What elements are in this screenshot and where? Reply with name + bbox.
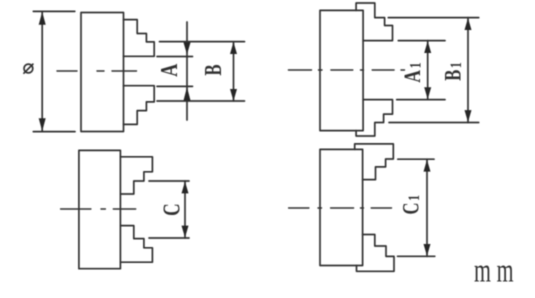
extension line bottom of A/B [157, 100, 245, 102]
arrowhead C1 top [424, 160, 431, 172]
arrowhead C top [182, 181, 189, 193]
dimension line B [233, 42, 235, 101]
dimension line C1 [426, 159, 428, 256]
extension line top of C1 [398, 158, 434, 160]
centerline of chuck 1 [57, 70, 137, 72]
svg-text:A: A [156, 63, 183, 77]
extension line bottom of C [149, 237, 189, 239]
centerline of chuck 4 [289, 207, 392, 209]
dimension line A [186, 22, 188, 120]
svg-text:C1: C1 [399, 195, 424, 215]
extension line bottom of A1 [397, 99, 445, 101]
arrowhead B1 bottom [465, 110, 472, 122]
diameter extension line bottom [33, 131, 75, 133]
chuck body 2 (top-right figure) [320, 10, 363, 130]
dimension line C [184, 181, 186, 238]
arrowhead A top (outside, pointing down) [184, 43, 191, 55]
top jaw of chuck 2 [356, 3, 392, 41]
svg-text:B1: B1 [441, 62, 466, 81]
diameter extension line top [33, 10, 75, 12]
chuck body 1 (top-left figure) [81, 13, 124, 132]
bottom jaw of chuck 3 [120, 226, 152, 263]
svg-text:A1: A1 [401, 62, 426, 82]
chuck body 4 (bottom-right figure) [320, 149, 363, 265]
arrowhead diameter top [39, 12, 46, 25]
centerline of chuck 2 [288, 69, 404, 71]
chuck body 3 (bottom-left figure) [79, 150, 121, 268]
extension line top of A1 [398, 40, 445, 42]
bottom jaw of chuck 1 [124, 86, 155, 125]
extension line bottom of B1 [389, 122, 479, 124]
arrowhead C1 bottom [424, 244, 431, 256]
bottom jaw of chuck 2 [356, 100, 392, 136]
arrowhead A1 bottom [424, 87, 431, 99]
diameter symbol slash [24, 64, 33, 73]
dimension line A1 [427, 41, 429, 100]
arrowhead B1 top [465, 18, 472, 30]
top jaw of chuck 3 [120, 157, 152, 194]
extension line top of C [149, 180, 189, 182]
arrowhead A1 top [424, 41, 431, 53]
arrowhead diameter bottom [39, 118, 46, 131]
top jaw of chuck 1 [124, 20, 155, 57]
arrowhead C bottom [182, 226, 189, 238]
svg-text:B: B [201, 64, 226, 75]
arrowhead B top [230, 42, 237, 54]
dimension line B1 [467, 18, 469, 123]
extension line jaw face upper [157, 56, 193, 58]
bottom jaw of chuck 4 [357, 235, 395, 272]
extension line bottom of C1 [398, 255, 435, 257]
extension line top of A/B [160, 41, 245, 43]
centerline of chuck 3 [61, 208, 136, 210]
svg-text:mm: mm [474, 253, 519, 290]
extension line top of B1 [388, 17, 478, 19]
extension line jaw face lower [157, 85, 193, 87]
arrowhead B bottom [230, 89, 237, 101]
diameter symbol circle [24, 64, 33, 73]
arrowhead A bottom (outside, pointing up) [184, 87, 191, 101]
svg-text:C: C [158, 203, 186, 215]
diameter dimension line [41, 11, 43, 131]
top jaw of chuck 4 [355, 144, 394, 180]
